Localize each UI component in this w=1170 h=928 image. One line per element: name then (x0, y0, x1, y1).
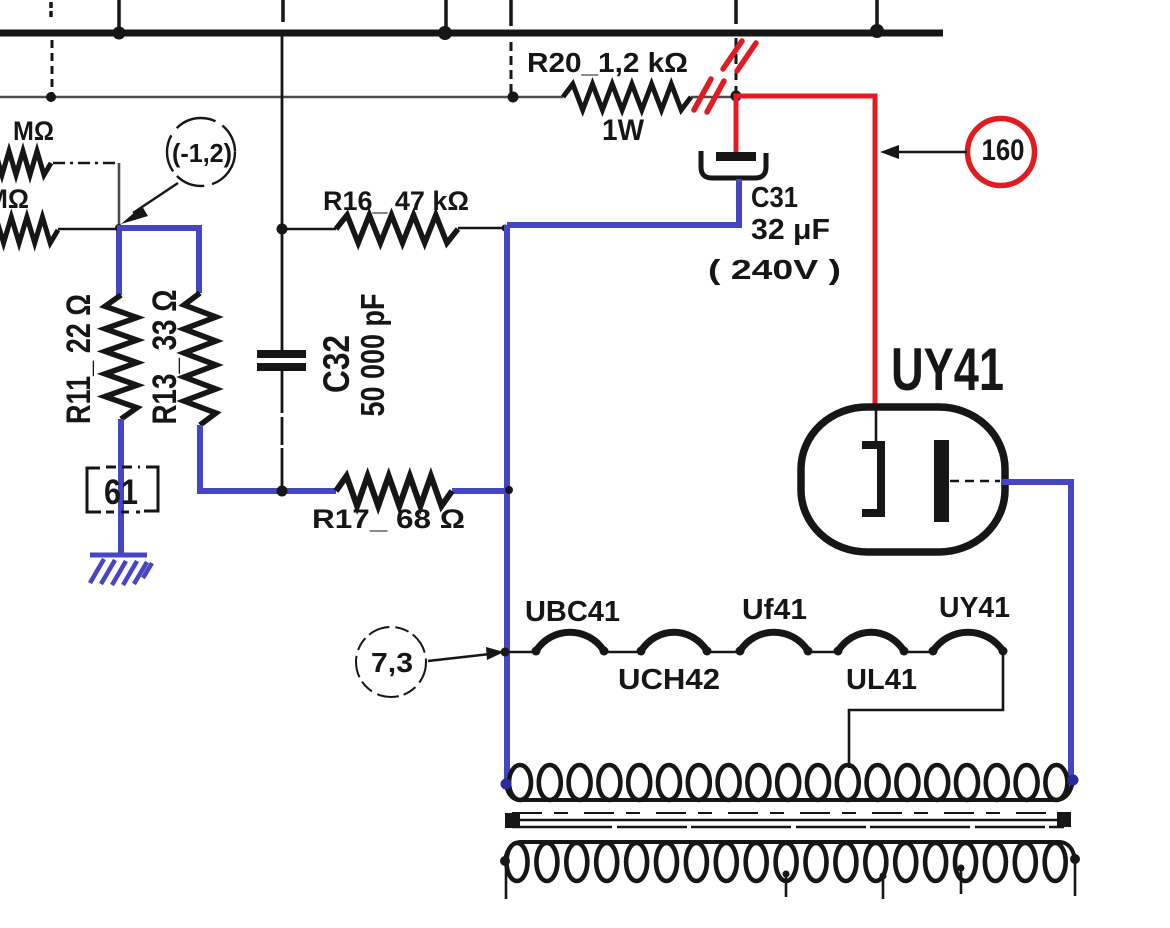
annotation box 61 (87, 467, 158, 512)
arrow 7,3 to heater node (428, 654, 490, 661)
wire: dash-dot link (53, 162, 119, 165)
svg-text:32 μF: 32 μF (751, 214, 830, 246)
wire: thin corner down to node (118, 163, 121, 228)
red cut slashes lower pair (694, 79, 724, 112)
svg-text:160: 160 (982, 134, 1025, 167)
capacitor C31 cup (701, 151, 766, 178)
node: dots on y97 line (46, 91, 742, 103)
red cut slashes upper pair (723, 41, 756, 71)
wire: blue cathode output (1002, 482, 1071, 780)
svg-text:UL41: UL41 (846, 664, 917, 696)
wire: C32 top lead from bus (281, 36, 284, 350)
resistor R20 1.2k 1W (563, 84, 691, 110)
annotation circle 7,3 (356, 627, 426, 697)
svg-text:61: 61 (104, 473, 138, 512)
svg-text:C31: C31 (751, 182, 798, 214)
wire: blue node to R11 top (116, 231, 122, 295)
wire: dashed drop x52 (51, 40, 54, 95)
tube UY41 envelope (801, 407, 1005, 552)
svg-text:UCH42: UCH42 (618, 664, 720, 696)
svg-text:50 000 pF: 50 000 pF (354, 294, 391, 417)
wire: blue R13 bottom to R17 (200, 425, 336, 491)
node: C32 junctions (277, 224, 288, 235)
wire: C32 bottom lead (281, 371, 284, 491)
wire: heater return to transformer tap (849, 652, 1003, 768)
wire: top supply bus (0, 30, 943, 37)
svg-text:R16_ 47 kΩ: R16_ 47 kΩ (323, 186, 469, 216)
wire: red B+ wire (736, 96, 875, 410)
heater humps UBC41 UCH42 UF41 UL41 UY41 (536, 632, 1003, 651)
svg-text:( 240V ): ( 240V ) (708, 254, 841, 285)
node: winding top ends (501, 779, 512, 790)
wire: dashed drop x511 (510, 42, 513, 94)
wire: blue main vertical x507 (504, 225, 510, 784)
resistor R13 33Ω (184, 293, 216, 425)
wire: dashed drop x736 (735, 38, 738, 93)
transformer primary winding (top) (509, 765, 1067, 800)
svg-text:(-1,2): (-1,2) (172, 138, 232, 168)
transformer taps below (506, 862, 1075, 899)
svg-text:MΩ: MΩ (13, 116, 54, 146)
svg-text:R17_ 68 Ω: R17_ 68 Ω (312, 504, 465, 534)
resistor R11 22Ω (105, 295, 137, 419)
wire: blue R17 right segment (452, 488, 509, 494)
wire: thin feed line y97 (0, 96, 733, 98)
tube anode plate (862, 445, 881, 513)
resistor MΩ lower (partial) (0, 217, 58, 243)
wire: blue R11 to ground (118, 419, 124, 554)
tube cathode dashed lead (950, 480, 1000, 483)
svg-text:Uf41: Uf41 (742, 594, 807, 626)
svg-text:R20_1,2 kΩ: R20_1,2 kΩ (527, 47, 688, 78)
wire: blue C31 negative lead (507, 179, 739, 225)
capacitor C31 32uF plate (716, 152, 756, 161)
arrow -1,2 to node (133, 183, 178, 213)
svg-text:MΩ: MΩ (0, 184, 29, 214)
svg-text:R11_ 22 Ω: R11_ 22 Ω (60, 294, 98, 424)
wire: bus stub ticks above (51, 0, 877, 30)
transformer core (512, 812, 1064, 814)
resistor R17 68Ω (336, 476, 452, 506)
svg-text:7,3: 7,3 (371, 647, 413, 678)
resistor R16 47k (282, 228, 336, 231)
arrow to red wire (893, 151, 967, 154)
svg-text:C32: C32 (316, 335, 357, 393)
transformer secondary winding (bottom) (507, 843, 1066, 881)
svg-text:UY41: UY41 (891, 336, 1004, 403)
node A junction (115, 224, 123, 232)
annotation circle 160 (968, 119, 1035, 186)
capacitor C32 plates (257, 350, 306, 358)
wire: blue node to R13 top (117, 228, 199, 293)
resistor MΩ upper (partial) (0, 151, 51, 175)
svg-text:R13_ 33 Ω: R13_ 33 Ω (146, 290, 184, 425)
node: bus junction dots (113, 24, 885, 40)
tube cathode bar (934, 440, 949, 522)
svg-text:UBC41: UBC41 (525, 596, 620, 628)
svg-text:UY41: UY41 (939, 592, 1010, 624)
tube anode lead (875, 410, 878, 442)
svg-text:1W: 1W (602, 114, 645, 147)
wire: heater chain baseline (505, 651, 933, 654)
ground symbol (blue hatched) (90, 553, 147, 558)
annotation circle -1,2 (167, 118, 235, 186)
